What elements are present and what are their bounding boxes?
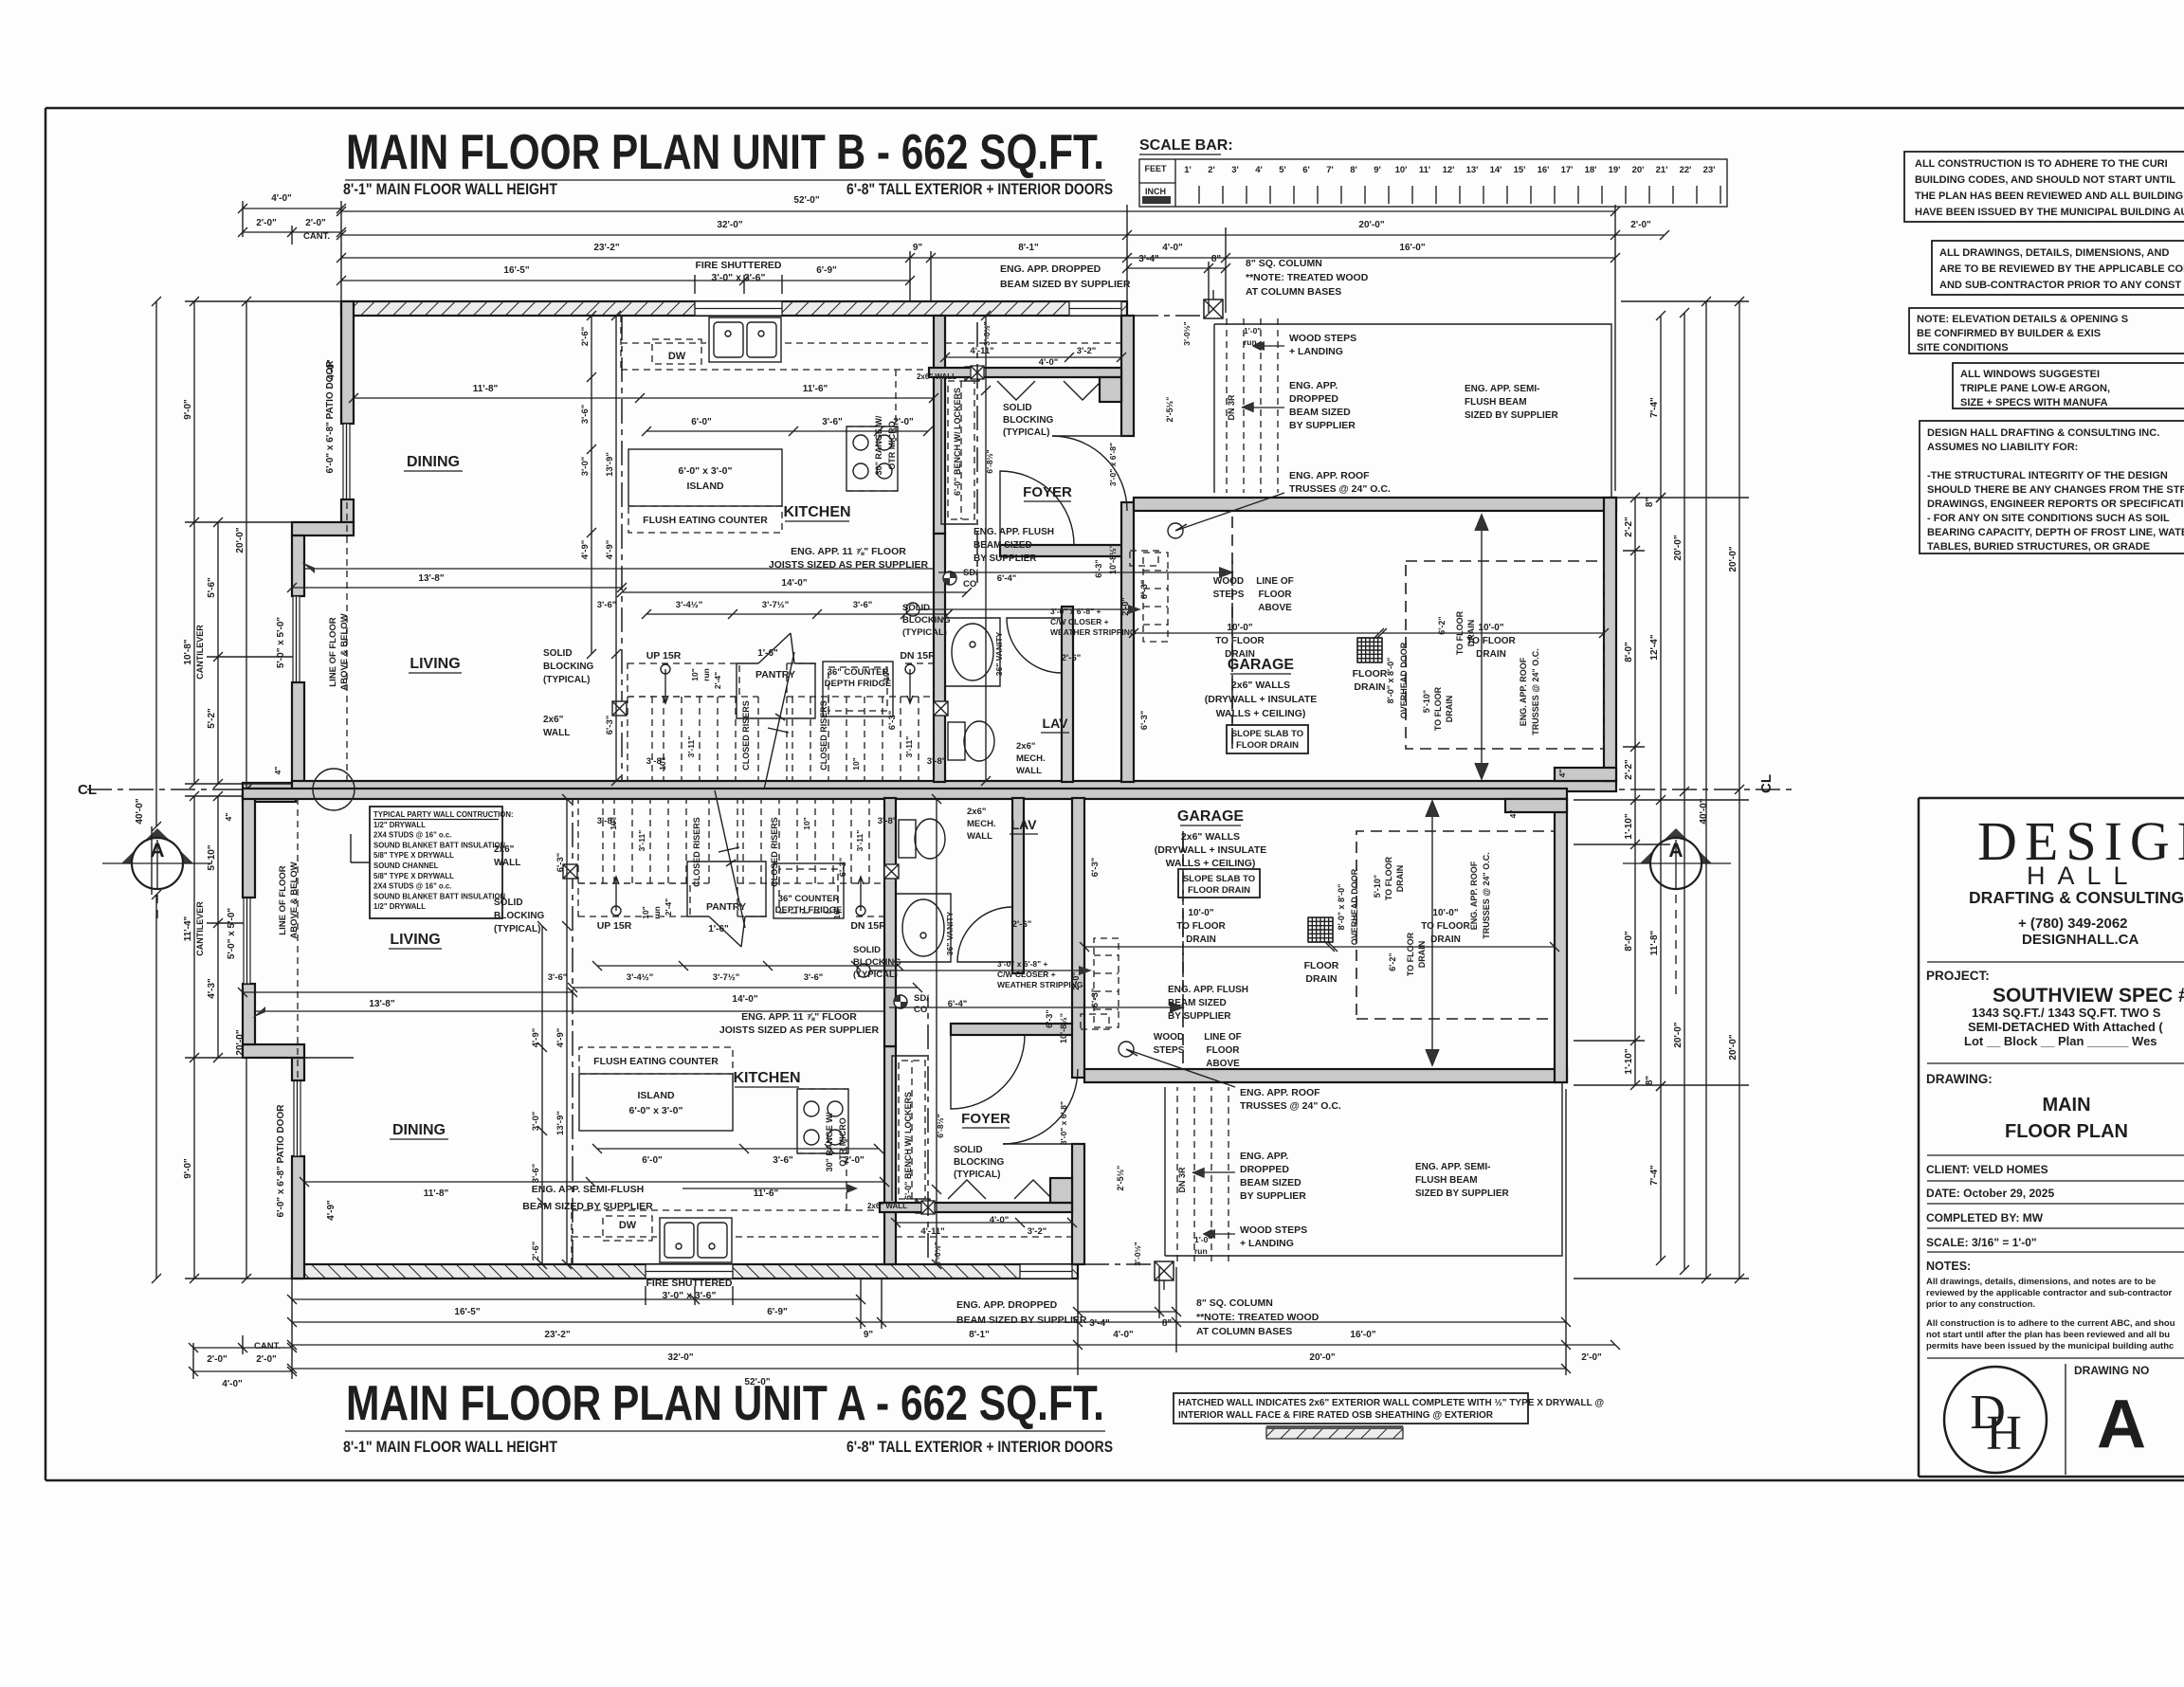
svg-text:TO FLOOR: TO FLOOR (1433, 686, 1443, 731)
svg-text:15': 15' (1514, 165, 1526, 175)
fridge (823, 662, 893, 717)
svg-text:1'-6": 1'-6" (708, 924, 729, 934)
svg-text:6'-8½": 6'-8½" (985, 449, 994, 473)
svg-text:14'-0": 14'-0" (781, 578, 807, 589)
svg-text:6'-2": 6'-2" (1437, 616, 1447, 634)
svg-text:3'-0½": 3'-0½" (933, 1242, 942, 1265)
svg-text:2x6" WALL: 2x6" WALL (867, 1202, 907, 1210)
svg-text:3'-4": 3'-4" (1138, 254, 1159, 264)
svg-text:DRAIN: DRAIN (1186, 934, 1216, 945)
svg-text:3'-4": 3'-4" (1089, 1318, 1110, 1329)
svg-text:52'-0": 52'-0" (744, 1377, 770, 1388)
svg-text:INTERIOR WALL FACE & FIRE RATE: INTERIOR WALL FACE & FIRE RATED OSB SHEA… (1178, 1410, 1494, 1421)
svg-text:CL: CL (78, 782, 97, 798)
svg-text:(TYPICAL): (TYPICAL) (902, 627, 947, 638)
svg-text:3'-2": 3'-2" (1077, 346, 1097, 356)
svg-text:2'-6": 2'-6" (580, 327, 591, 347)
svg-text:WALL: WALL (494, 858, 520, 868)
svg-text:OTR MICRO: OTR MICRO (887, 421, 897, 470)
svg-text:6'-0" x 6'-8" PATIO DOOR: 6'-0" x 6'-8" PATIO DOOR (276, 1104, 286, 1218)
svg-text:SLOPE SLAB TO: SLOPE SLAB TO (1183, 874, 1255, 884)
svg-text:DRAIN: DRAIN (1305, 973, 1337, 985)
svg-text:5': 5' (1279, 165, 1286, 175)
svg-text:13': 13' (1466, 165, 1479, 175)
svg-text:+ LANDING: + LANDING (1240, 1238, 1294, 1249)
svg-text:FIRE SHUTTERED: FIRE SHUTTERED (695, 260, 781, 271)
svg-text:DINING: DINING (407, 454, 460, 470)
svg-text:SIZED BY SUPPLIER: SIZED BY SUPPLIER (1465, 410, 1559, 421)
svg-text:MAIN FLOOR PLAN UNIT B - 662 S: MAIN FLOOR PLAN UNIT B - 662 SQ.FT. (346, 125, 1104, 180)
svg-text:2x6" WALLS: 2x6" WALLS (1181, 831, 1240, 843)
svg-text:(TYPICAL): (TYPICAL) (954, 1170, 1000, 1180)
svg-text:2'-4": 2'-4" (664, 898, 673, 916)
svg-text:ALL WINDOWS SUGGESTEI: ALL WINDOWS SUGGESTEI (1960, 369, 2100, 380)
svg-text:DN 3R: DN 3R (1227, 394, 1236, 421)
svg-text:1/2" DRYWALL: 1/2" DRYWALL (373, 902, 426, 911)
svg-text:BEAM SIZED: BEAM SIZED (1240, 1177, 1301, 1188)
svg-text:C/W CLOSER +: C/W CLOSER + (1050, 617, 1109, 626)
svg-text:TO FLOOR: TO FLOOR (1176, 921, 1226, 932)
svg-text:WOOD: WOOD (1154, 1032, 1184, 1043)
svg-text:11'-6": 11'-6" (803, 384, 828, 394)
section marker left (121, 828, 193, 863)
svg-text:3'-0" x 3'-6": 3'-0" x 3'-6" (663, 1290, 717, 1301)
svg-text:LAV: LAV (1043, 716, 1069, 731)
svg-text:ABOVE: ABOVE (1258, 603, 1292, 613)
svg-text:STEPS: STEPS (1213, 590, 1245, 600)
svg-text:FIRE SHUTTERED: FIRE SHUTTERED (646, 1278, 732, 1289)
svg-text:4'-0": 4'-0" (271, 193, 292, 204)
svg-text:4'-9": 4'-9" (580, 540, 591, 560)
svg-text:40'-0": 40'-0" (135, 798, 145, 824)
svg-text:permits have been issued by th: permits have been issued by the municipa… (1926, 1341, 2174, 1351)
svg-text:FLOOR PLAN: FLOOR PLAN (2005, 1121, 2128, 1142)
eng flush beam arrow (938, 571, 1221, 573)
svg-text:3'-6": 3'-6" (548, 972, 568, 983)
svg-text:(DRYWALL + INSULATE: (DRYWALL + INSULATE (1205, 694, 1318, 705)
svg-text:2'-0": 2'-0" (1581, 1352, 1602, 1363)
svg-text:2'-6": 2'-6" (1012, 919, 1032, 930)
note box 2 (1932, 241, 2184, 295)
svg-text:7'-4": 7'-4" (1649, 397, 1660, 418)
svg-text:8": 8" (1645, 498, 1655, 508)
svg-text:3'-11": 3'-11" (855, 830, 864, 852)
svg-text:CO: CO (963, 579, 976, 590)
svg-text:SOLID: SOLID (543, 648, 573, 659)
svg-text:4'-9": 4'-9" (326, 1200, 337, 1221)
svg-text:HAVE BEEN ISSUED BY THE MUNICI: HAVE BEEN ISSUED BY THE MUNICIPAL BUILDI… (1915, 207, 2184, 218)
svg-text:SOLID: SOLID (954, 1145, 983, 1155)
svg-text:1'-0": 1'-0" (1244, 326, 1261, 336)
svg-text:6'-3": 6'-3" (838, 858, 848, 878)
svg-text:2'-0": 2'-0" (1071, 971, 1081, 989)
note box 1 (1904, 152, 2184, 222)
svg-text:4'-9": 4'-9" (555, 1028, 566, 1048)
svg-text:1'-0": 1'-0" (1194, 1235, 1211, 1244)
svg-text:prior to any construction.: prior to any construction. (1926, 1299, 2035, 1310)
svg-text:MAIN: MAIN (2042, 1095, 2090, 1116)
kitchen-foyer wall (934, 316, 945, 534)
interior dim rows (349, 393, 938, 403)
svg-text:BY SUPPLIER: BY SUPPLIER (1289, 420, 1356, 431)
lav walls (934, 534, 945, 782)
svg-text:FLUSH EATING COUNTER: FLUSH EATING COUNTER (593, 1056, 719, 1067)
svg-text:14'-0": 14'-0" (732, 994, 757, 1005)
svg-text:DRAWINGS, ENGINEER REPORTS OR: DRAWINGS, ENGINEER REPORTS OR SPECIFICAT… (1927, 499, 2184, 510)
svg-text:8" SQ. COLUMN: 8" SQ. COLUMN (1246, 258, 1322, 269)
foyer right exterior wall (1121, 316, 1134, 436)
svg-text:ABOVE & BELOW: ABOVE & BELOW (339, 613, 350, 690)
left wall (341, 301, 354, 424)
svg-text:5/8" TYPE X DRYWALL: 5/8" TYPE X DRYWALL (373, 851, 454, 860)
svg-text:ENG. APP.: ENG. APP. (1289, 380, 1338, 391)
svg-text:run: run (1194, 1246, 1208, 1256)
svg-text:ISLAND: ISLAND (637, 1090, 675, 1101)
svg-text:8" SQ. COLUMN: 8" SQ. COLUMN (1196, 1297, 1273, 1309)
party wall centerline CL (87, 789, 1792, 790)
svg-text:3'-6": 3'-6" (804, 972, 824, 983)
svg-text:6'-9": 6'-9" (767, 1307, 788, 1317)
svg-text:SOUTHVIEW SPEC #: SOUTHVIEW SPEC # (1993, 985, 2184, 1007)
svg-text:GARAGE: GARAGE (1177, 808, 1245, 825)
svg-text:2'-5½": 2'-5½" (1165, 397, 1174, 423)
svg-text:8": 8" (1211, 254, 1222, 264)
svg-text:1'-10": 1'-10" (1624, 813, 1634, 839)
mid dash-dot line (621, 316, 623, 781)
svg-text:FLOOR: FLOOR (1207, 1045, 1241, 1056)
svg-text:DRAFTING & CONSULTING: DRAFTING & CONSULTING (1969, 888, 2184, 907)
svg-text:2'-0": 2'-0" (305, 218, 326, 228)
svg-text:4': 4' (1255, 165, 1263, 175)
svg-text:LINE OF FLOOR: LINE OF FLOOR (278, 865, 288, 934)
svg-text:SHOULD THERE BE ANY CHANGES FR: SHOULD THERE BE ANY CHANGES FROM THE STR… (1927, 484, 2184, 496)
svg-text:2'-0": 2'-0" (207, 1354, 227, 1365)
unit exterior walls (341, 301, 1127, 316)
hatched wall legend (1174, 1393, 1528, 1424)
svg-text:ENG. APP. ROOF: ENG. APP. ROOF (1469, 861, 1479, 930)
svg-text:DESIGN HALL DRAFTING & CONSULT: DESIGN HALL DRAFTING & CONSULTING INC. (1927, 427, 2159, 439)
svg-text:TRUSSES @ 24" O.C.: TRUSSES @ 24" O.C. (1240, 1100, 1341, 1112)
svg-text:run: run (1244, 337, 1257, 347)
svg-text:OVERHEAD DOOR: OVERHEAD DOOR (1350, 868, 1359, 945)
DH monogram logo (1944, 1367, 2047, 1473)
svg-text:6'-3": 6'-3" (887, 711, 898, 731)
svg-text:3'-6": 3'-6" (580, 405, 591, 425)
svg-text:ABOVE: ABOVE (1206, 1059, 1240, 1069)
svg-text:3'-6": 3'-6" (822, 417, 843, 427)
svg-text:2x6": 2x6" (543, 715, 564, 725)
svg-text:ENG. APP. ROOF: ENG. APP. ROOF (1289, 470, 1370, 481)
svg-text:2X4 STUDS @ 16" o.c.: 2X4 STUDS @ 16" o.c. (373, 882, 451, 891)
svg-text:20'-0": 20'-0" (1673, 535, 1683, 560)
svg-text:10": 10" (641, 906, 650, 919)
svg-text:FLOOR DRAIN: FLOOR DRAIN (1188, 885, 1250, 896)
svg-text:UP 15R: UP 15R (646, 650, 682, 662)
svg-text:BEARING CAPACITY, DEPTH OF FRO: BEARING CAPACITY, DEPTH OF FROST LINE, W… (1927, 527, 2184, 538)
svg-text:6'-0" BENCH W/ LOCKERS: 6'-0" BENCH W/ LOCKERS (953, 388, 962, 496)
svg-text:20': 20' (1632, 165, 1645, 175)
svg-text:10'-0": 10'-0" (1188, 908, 1213, 918)
foyer bottom wall (1000, 545, 1133, 556)
svg-text:BLOCKING: BLOCKING (954, 1157, 1005, 1168)
extension lines top (243, 201, 1615, 491)
svg-text:TABLES, BURIED STRUCTURES, OR: TABLES, BURIED STRUCTURES, OR GRADE (1927, 541, 2150, 553)
svg-text:3'-8": 3'-8" (878, 816, 898, 826)
svg-text:6'-3": 6'-3" (1094, 559, 1103, 577)
svg-text:DESIGNHALL.CA: DESIGNHALL.CA (2022, 932, 2139, 948)
garage left lower wall jog (1555, 768, 1616, 781)
svg-text:NOTE: ELEVATION DETAILS & OPEN: NOTE: ELEVATION DETAILS & OPENING S (1917, 314, 2128, 325)
svg-text:FOYER: FOYER (961, 1111, 1010, 1127)
svg-text:11'-8": 11'-8" (1649, 930, 1660, 955)
foyer closet counter dashed (945, 342, 1121, 344)
svg-text:ENG. APP. SEMI-: ENG. APP. SEMI- (1465, 384, 1539, 394)
svg-text:20'-0": 20'-0" (1728, 1034, 1738, 1060)
left small dims (238, 204, 346, 213)
svg-text:20'-0": 20'-0" (235, 527, 246, 553)
svg-text:3'-0": 3'-0" (580, 457, 591, 477)
svg-text:ENG. APP. DROPPED: ENG. APP. DROPPED (1000, 263, 1101, 275)
svg-text:4'-0": 4'-0" (990, 1215, 1010, 1225)
svg-text:STEPS: STEPS (1154, 1045, 1185, 1056)
svg-text:2'-2": 2'-2" (1624, 759, 1634, 780)
svg-text:4'-0": 4'-0" (1113, 1330, 1134, 1340)
svg-text:20'-0": 20'-0" (1358, 220, 1384, 230)
svg-text:CL: CL (1758, 774, 1774, 793)
svg-text:4'-0": 4'-0" (222, 1379, 243, 1389)
bench w lockers (948, 381, 974, 519)
svg-text:12'-4": 12'-4" (1649, 634, 1660, 660)
svg-text:4'-0": 4'-0" (1039, 357, 1059, 368)
svg-text:WALL: WALL (543, 728, 570, 738)
closet bifold chevrons (997, 381, 1101, 400)
svg-text:OTR MICRO: OTR MICRO (838, 1117, 847, 1167)
svg-text:SD/: SD/ (914, 993, 929, 1004)
svg-text:4": 4" (273, 767, 282, 775)
svg-text:6'-0": 6'-0" (642, 1155, 663, 1166)
svg-text:CANTILEVER: CANTILEVER (195, 901, 205, 956)
svg-text:4": 4" (1508, 810, 1518, 819)
svg-text:11'-4": 11'-4" (183, 916, 193, 941)
svg-text:10": 10" (802, 817, 811, 830)
leader arrows right of stairs (1253, 342, 1284, 350)
svg-text:ALL DRAWINGS, DETAILS, DIMENSI: ALL DRAWINGS, DETAILS, DIMENSIONS, AND (1939, 247, 2169, 259)
svg-text:BY SUPPLIER: BY SUPPLIER (1168, 1011, 1231, 1022)
svg-text:BEAM SIZED BY SUPPLIER: BEAM SIZED BY SUPPLIER (522, 1201, 653, 1212)
svg-text:CLOSED RISERS: CLOSED RISERS (770, 817, 779, 887)
svg-text:FLUSH BEAM: FLUSH BEAM (1415, 1175, 1478, 1186)
foyer closet wall band (929, 368, 1121, 377)
svg-text:PANTRY: PANTRY (706, 901, 746, 913)
svg-text:3'-6": 3'-6" (531, 1164, 541, 1184)
svg-text:PANTRY: PANTRY (755, 669, 795, 680)
svg-text:+ LANDING: + LANDING (1289, 346, 1343, 357)
svg-text:10": 10" (658, 757, 667, 771)
svg-text:ENG. APP. DROPPED: ENG. APP. DROPPED (956, 1299, 1058, 1311)
svg-text:DN 3R: DN 3R (1177, 1167, 1187, 1193)
svg-text:BLOCKING: BLOCKING (1003, 415, 1054, 426)
svg-text:10'-8½": 10'-8½" (1059, 1013, 1068, 1043)
foyer interior door arc (1000, 471, 1074, 545)
svg-text:6'-0": 6'-0" (691, 417, 712, 427)
svg-text:2'-0": 2'-0" (1120, 597, 1130, 615)
sheet border (45, 108, 2184, 1480)
svg-text:CANTILEVER: CANTILEVER (195, 625, 205, 680)
note box 5 (1920, 421, 2184, 553)
svg-text:6'-3": 6'-3" (1045, 1009, 1054, 1027)
svg-text:BLOCKING: BLOCKING (902, 615, 951, 626)
svg-text:COMPLETED BY: MW: COMPLETED BY: MW (1926, 1211, 2044, 1224)
svg-text:AT COLUMN BASES: AT COLUMN BASES (1246, 286, 1341, 298)
svg-text:HATCHED WALL INDICATES 2x6" EX: HATCHED WALL INDICATES 2x6" EXTERIOR WAL… (1178, 1398, 1604, 1408)
svg-text:ABOVE & BELOW: ABOVE & BELOW (289, 862, 300, 938)
right extension lines (1574, 301, 1749, 1279)
svg-text:LAV: LAV (1011, 817, 1038, 832)
svg-text:9': 9' (1374, 165, 1381, 175)
svg-text:8': 8' (1350, 165, 1357, 175)
door niche (1100, 377, 1121, 402)
svg-text:TRIPLE PANE LOW-E ARGON,: TRIPLE PANE LOW-E ARGON, (1960, 383, 2110, 394)
svg-text:BLOCKING: BLOCKING (853, 957, 901, 968)
svg-text:ENG. APP.: ENG. APP. (1240, 1151, 1288, 1162)
svg-text:4'-3": 4'-3" (207, 978, 217, 999)
svg-text:TO FLOOR: TO FLOOR (1455, 610, 1465, 655)
svg-text:6'-0" x 3'-0": 6'-0" x 3'-0" (679, 465, 733, 477)
svg-text:3'-0" x 6'-8": 3'-0" x 6'-8" (1108, 443, 1118, 486)
svg-text:ISLAND: ISLAND (686, 481, 724, 492)
svg-text:10": 10" (690, 668, 700, 681)
svg-text:FLOOR DRAIN: FLOOR DRAIN (1236, 740, 1299, 751)
svg-text:8'-0": 8'-0" (1624, 642, 1634, 662)
svg-text:SOUND BLANKET BATT INSULATION: SOUND BLANKET BATT INSULATION (373, 892, 506, 900)
lav fixtures (952, 624, 993, 680)
svg-text:TRUSSES @ 24" O.C.: TRUSSES @ 24" O.C. (1531, 648, 1540, 735)
svg-text:8'-1": 8'-1" (1018, 243, 1039, 253)
svg-text:20'-0": 20'-0" (1728, 546, 1738, 571)
svg-text:8'-1" MAIN FLOOR WALL HEIGHT: 8'-1" MAIN FLOOR WALL HEIGHT (343, 180, 558, 198)
svg-text:5'-10": 5'-10" (1422, 690, 1431, 713)
svg-text:13'-9": 13'-9" (555, 1111, 566, 1135)
svg-text:(DRYWALL + INSULATE: (DRYWALL + INSULATE (1155, 844, 1267, 856)
svg-text:2'-6": 2'-6" (531, 1242, 541, 1261)
svg-text:10": 10" (882, 668, 891, 681)
svg-text:-THE STRUCTURAL INTEGRITY OF T: -THE STRUCTURAL INTEGRITY OF THE DESIGN (1927, 470, 2168, 481)
svg-text:2X4 STUDS @ 16" o.c.: 2X4 STUDS @ 16" o.c. (373, 831, 451, 840)
svg-text:TO FLOOR: TO FLOOR (1384, 856, 1393, 900)
svg-text:ASSUMES NO LIABILITY FOR:: ASSUMES NO LIABILITY FOR: (1927, 442, 2078, 453)
top dim rows (337, 207, 1620, 216)
svg-text:10": 10" (851, 757, 861, 771)
svg-text:ENG. APP. 11 ⅞" FLOOR: ENG. APP. 11 ⅞" FLOOR (791, 546, 906, 557)
svg-text:FEET: FEET (1144, 164, 1167, 173)
svg-text:6'-3": 6'-3" (1139, 711, 1150, 731)
svg-text:SEMI-DETACHED With Attached (: SEMI-DETACHED With Attached ( (1968, 1020, 2163, 1034)
svg-text:3'-11": 3'-11" (904, 736, 914, 758)
svg-text:ENG. APP. SEMI-FLUSH: ENG. APP. SEMI-FLUSH (532, 1184, 644, 1195)
svg-text:DRAIN: DRAIN (1445, 696, 1454, 723)
svg-text:6'-8½": 6'-8½" (936, 1114, 945, 1137)
svg-text:WALLS + CEILING): WALLS + CEILING) (1216, 708, 1306, 719)
note box 4 (1953, 363, 2184, 408)
svg-text:3'-4½": 3'-4½" (676, 600, 702, 610)
svg-text:HALL: HALL (2027, 862, 2140, 890)
svg-text:8'-1" MAIN FLOOR WALL HEIGHT: 8'-1" MAIN FLOOR WALL HEIGHT (343, 1438, 558, 1456)
svg-text:3'-2": 3'-2" (1028, 1226, 1047, 1237)
svg-text:SIZED BY SUPPLIER: SIZED BY SUPPLIER (1415, 1188, 1510, 1199)
svg-text:4'-9": 4'-9" (531, 1028, 541, 1048)
garage dash-dot interior line (1231, 561, 1233, 749)
svg-text:16'-0": 16'-0" (1399, 243, 1425, 253)
svg-text:DRAIN: DRAIN (1417, 941, 1427, 969)
svg-text:DRAIN: DRAIN (1430, 934, 1461, 945)
svg-text:9": 9" (913, 243, 923, 253)
svg-text:8'-0": 8'-0" (1624, 931, 1634, 952)
svg-text:3'-6": 3'-6" (773, 1155, 793, 1166)
svg-text:5'-10": 5'-10" (207, 844, 217, 870)
svg-text:SOLID: SOLID (853, 945, 881, 955)
svg-text:20'-0": 20'-0" (1673, 1022, 1683, 1047)
svg-text:FLOOR: FLOOR (1304, 960, 1339, 971)
svg-text:FOYER: FOYER (1023, 484, 1072, 500)
note box 3 (1909, 308, 2184, 354)
svg-text:LIVING: LIVING (409, 656, 460, 672)
svg-text:2x6": 2x6" (967, 807, 986, 817)
svg-text:SCALE BAR:: SCALE BAR: (1139, 137, 1233, 154)
svg-text:1'-10": 1'-10" (1624, 1048, 1634, 1074)
svg-text:- FOR ANY ON SITE CONDITIONS S: - FOR ANY ON SITE CONDITIONS SUCH AS SOI… (1927, 513, 2170, 524)
svg-text:36" COUNTER: 36" COUNTER (778, 894, 840, 904)
svg-text:TO FLOOR: TO FLOOR (1421, 921, 1470, 932)
svg-text:ENG. APP. SEMI-: ENG. APP. SEMI- (1415, 1162, 1490, 1172)
svg-text:WOOD: WOOD (1213, 576, 1244, 587)
svg-text:4'-9": 4'-9" (605, 540, 615, 560)
svg-text:11': 11' (1419, 165, 1430, 175)
svg-text:3'-0" x 3'-6": 3'-0" x 3'-6" (712, 272, 766, 283)
range (846, 426, 898, 491)
svg-text:6'-9": 6'-9" (816, 265, 837, 276)
svg-text:WOOD STEPS: WOOD STEPS (1289, 333, 1356, 344)
svg-text:7': 7' (1326, 165, 1334, 175)
svg-text:BLOCKING: BLOCKING (494, 911, 545, 921)
svg-text:MECH.: MECH. (967, 819, 996, 829)
svg-text:6'-2": 6'-2" (1388, 952, 1397, 970)
svg-text:FLOOR: FLOOR (1353, 668, 1388, 680)
island (628, 449, 782, 506)
svg-text:TRUSSES @ 24" O.C.: TRUSSES @ 24" O.C. (1289, 483, 1391, 495)
svg-text:52'-0": 52'-0" (793, 195, 819, 206)
svg-text:2': 2' (1208, 165, 1215, 175)
svg-text:5'-0" x 5'-0": 5'-0" x 5'-0" (227, 908, 237, 960)
svg-text:2'-0": 2'-0" (1630, 220, 1651, 230)
svg-text:ALL CONSTRUCTION IS TO ADHERE: ALL CONSTRUCTION IS TO ADHERE TO THE CUR… (1915, 158, 2168, 170)
svg-text:1'-6": 1'-6" (757, 648, 778, 659)
section marker right (1640, 828, 1712, 863)
svg-text:6'-3": 6'-3" (1090, 858, 1101, 878)
svg-text:10'-8½": 10'-8½" (1108, 544, 1118, 574)
svg-text:SCALE: 3/16" = 1'-0": SCALE: 3/16" = 1'-0" (1926, 1236, 2037, 1249)
svg-text:36" VANITY: 36" VANITY (945, 911, 955, 955)
svg-text:run: run (701, 668, 711, 681)
svg-text:30" RANGE W/: 30" RANGE W/ (825, 1112, 834, 1171)
svg-text:36" VANITY: 36" VANITY (994, 631, 1004, 676)
svg-text:23'-2": 23'-2" (593, 243, 619, 253)
svg-text:CLIENT: VELD HOMES: CLIENT: VELD HOMES (1926, 1163, 2048, 1176)
svg-text:UP 15R: UP 15R (597, 920, 632, 932)
svg-text:2x6" WALLS: 2x6" WALLS (1231, 680, 1290, 691)
svg-text:BEAM SIZED: BEAM SIZED (974, 540, 1032, 551)
svg-text:ENG. APP. ROOF: ENG. APP. ROOF (1240, 1087, 1320, 1098)
svg-text:6'-3": 6'-3" (1090, 989, 1101, 1008)
